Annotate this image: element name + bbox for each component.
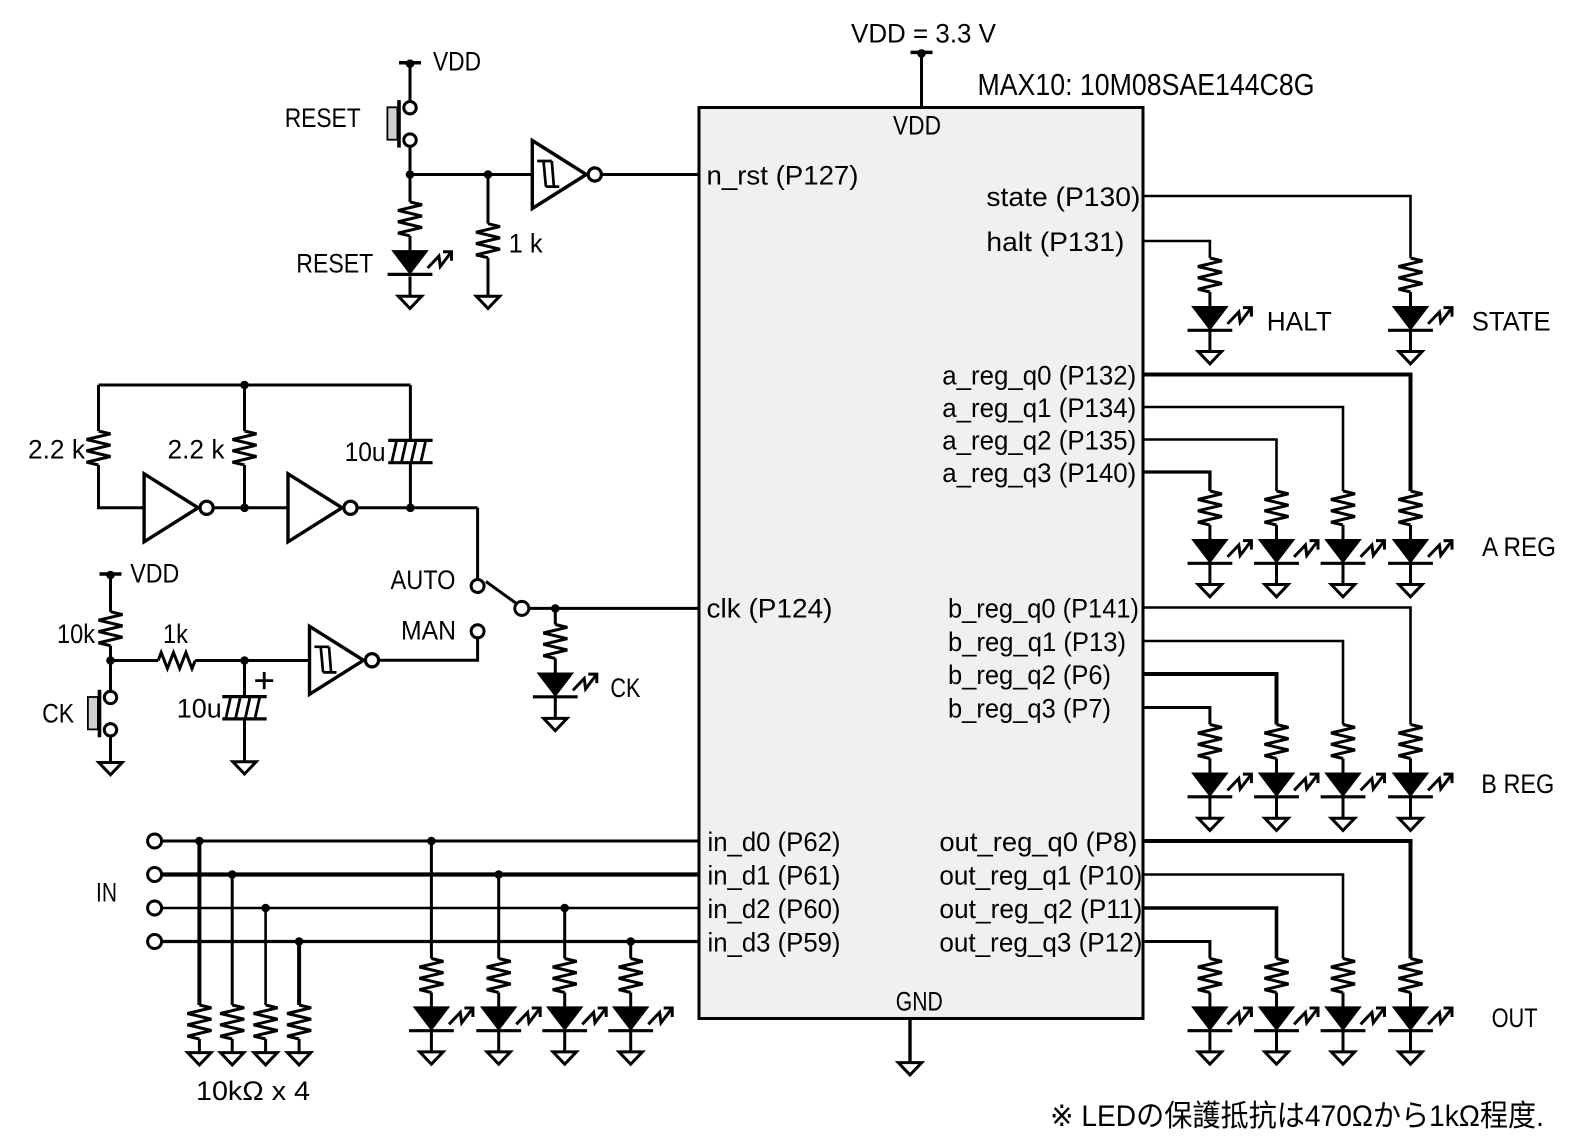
ground (D6) xyxy=(619,1052,642,1064)
wire D19 to ground xyxy=(1342,1032,1345,1052)
svg-text:VDD: VDD xyxy=(433,47,481,77)
VDD power symbol (CK pullup) xyxy=(100,571,122,580)
wire U2 output to FPGA n_rst xyxy=(602,173,699,176)
wire D10 to ground xyxy=(1275,564,1278,585)
resistor R10 10k xyxy=(254,1005,278,1039)
wire D16 to ground xyxy=(1409,798,1412,819)
wire R24 to LED D15 xyxy=(1342,759,1345,774)
wire R12 to LED D3 xyxy=(430,993,433,1008)
wire in_d1 to resistor R9 xyxy=(231,875,234,1006)
wire in_d3 to resistor R11 xyxy=(297,942,301,1006)
wire top to resistor R3 xyxy=(97,385,100,431)
svg-text:GND: GND xyxy=(896,987,943,1017)
resistor R12 (IN0 LED series) xyxy=(419,959,443,993)
wire a_reg_q3 (P140) to column 1 xyxy=(1143,472,1210,491)
pushbutton SW2 CK xyxy=(88,690,117,738)
wire node CKIN to resistor R6 xyxy=(111,659,159,662)
svg-text:a_reg_q3 (P140): a_reg_q3 (P140) xyxy=(942,458,1136,488)
wire SW1 to node RST xyxy=(409,147,412,175)
wire halt (P131) to HALT column xyxy=(1143,241,1210,258)
ground (D1) xyxy=(398,296,421,308)
switch SW3 AUTO contact xyxy=(471,580,484,593)
wire VDD to FPGA xyxy=(920,52,923,107)
svg-text:MAN: MAN xyxy=(401,616,456,646)
svg-text:AUTO: AUTO xyxy=(391,565,456,595)
wire D20 to ground xyxy=(1409,1032,1412,1052)
svg-text:A REG: A REG xyxy=(1482,532,1556,562)
oscillator top feedback wire xyxy=(99,384,411,387)
wire R19 to LED D10 xyxy=(1275,525,1278,540)
wire in_d1 xyxy=(162,872,699,876)
svg-text:a_reg_q0 (P132): a_reg_q0 (P132) xyxy=(942,361,1136,391)
wire R16 to LED D7 xyxy=(1208,292,1211,307)
resistor R29 (OUT q0) xyxy=(1399,959,1423,993)
wire R21 to LED D12 xyxy=(1409,525,1412,540)
schmitt inverter U2 xyxy=(532,141,601,209)
wire common to FPGA clk xyxy=(529,607,699,610)
svg-text:b_reg_q2 (P6): b_reg_q2 (P6) xyxy=(948,660,1111,690)
LED D1 RESET xyxy=(388,251,452,274)
wire node CKIN to pushbutton SW2 xyxy=(109,661,112,692)
wire D7 to ground xyxy=(1208,331,1211,352)
ground (SW2) xyxy=(99,763,122,775)
wire junction to resistor R7 xyxy=(554,608,557,624)
svg-text:b_reg_q0 (P141): b_reg_q0 (P141) xyxy=(948,594,1139,624)
resistor R9 10k xyxy=(220,1005,244,1039)
wire b_reg_q0 (P141) to column 4 xyxy=(1143,608,1411,725)
ground (D19) xyxy=(1331,1052,1354,1064)
junction in_d3 / R15 xyxy=(626,937,635,946)
wire R5 to node CKIN xyxy=(109,646,112,661)
wire R25 to LED D16 xyxy=(1409,759,1412,774)
ground (D7) xyxy=(1198,352,1221,364)
switch SW3 common contact xyxy=(515,601,529,615)
resistor R14 (IN2 LED series) xyxy=(553,959,577,993)
resistor R18 (A REG q3) xyxy=(1198,491,1222,525)
svg-text:in_d0 (P62): in_d0 (P62) xyxy=(708,827,841,857)
ground (D17) xyxy=(1198,1052,1221,1064)
svg-text:STATE: STATE xyxy=(1472,307,1551,337)
resistor R27 (OUT q2) xyxy=(1265,959,1289,993)
FPGA block U1 MAX10 xyxy=(699,108,1143,1019)
wire VDD to resistor R5 xyxy=(109,574,112,612)
resistor R23 (B REG q2) xyxy=(1265,725,1289,759)
wire in_d0 to resistor R8 xyxy=(197,841,201,1005)
svg-text:out_reg_q1 (P10): out_reg_q1 (P10) xyxy=(939,861,1142,891)
svg-text:in_d2 (P60): in_d2 (P60) xyxy=(708,894,841,924)
svg-text:out_reg_q2 (P11): out_reg_q2 (P11) xyxy=(939,894,1142,924)
resistor R21 (A REG q0) xyxy=(1399,491,1423,525)
wire R26 to LED D17 xyxy=(1208,993,1211,1008)
wire junction to resistor R4 xyxy=(243,385,246,431)
resistor R16 (HALT LED series) xyxy=(1198,258,1222,292)
terminal IN3 xyxy=(148,935,162,949)
wire R18 to LED D9 xyxy=(1208,525,1211,540)
resistor R7 (CK LED series) xyxy=(543,625,567,659)
resistor R11 10k xyxy=(287,1005,311,1039)
wire node RST to inverter U2 input xyxy=(410,173,532,176)
LED D6 IN3 xyxy=(608,1007,672,1030)
resistor R28 (OUT q1) xyxy=(1331,959,1355,993)
wire out_reg_q3 (P12) to column 1 xyxy=(1143,942,1210,959)
ground (D13) xyxy=(1198,818,1221,830)
svg-text:CK: CK xyxy=(42,699,74,729)
wire R6 to U5 input xyxy=(195,659,309,662)
wire VDD to switch SW1 xyxy=(409,63,412,102)
ground (D20) xyxy=(1399,1052,1422,1064)
svg-text:in_d3 (P59): in_d3 (P59) xyxy=(708,928,841,958)
wire D3 to ground xyxy=(430,1032,433,1052)
wire a_reg_q0 (P132) to column 4 xyxy=(1143,375,1411,492)
wire in_d2 to resistor R10 xyxy=(264,908,267,1005)
wire D11 to ground xyxy=(1342,564,1345,585)
terminal IN2 xyxy=(148,901,162,915)
LED D14 B REG q2 xyxy=(1254,774,1318,797)
wire R2 to ground xyxy=(487,258,490,297)
wire R28 to LED D19 xyxy=(1342,993,1345,1008)
wire C2 to ground xyxy=(243,719,246,762)
schmitt inverter U5 xyxy=(310,626,379,694)
wire R9 to ground xyxy=(231,1039,234,1053)
wire U3 output to U4 input xyxy=(213,506,288,509)
junction in_d0 / R8 xyxy=(195,837,204,846)
node CKIN junction xyxy=(106,656,115,665)
wire D18 to ground xyxy=(1275,1032,1278,1052)
wire out_reg_q2 (P11) to column 2 xyxy=(1143,908,1277,959)
ground (D12) xyxy=(1399,585,1422,597)
wire R8 to ground xyxy=(198,1039,201,1053)
svg-text:2.2 k: 2.2 k xyxy=(168,435,225,465)
LED D9 A REG q3 xyxy=(1188,540,1252,563)
resistor R25 (B REG q0) xyxy=(1399,725,1423,759)
ground (C2) xyxy=(233,762,256,774)
svg-text:halt (P131): halt (P131) xyxy=(986,227,1124,257)
resistor R24 (B REG q1) xyxy=(1331,725,1355,759)
LED D19 OUT q1 xyxy=(1321,1007,1385,1030)
wire node RST to resistor R2 xyxy=(487,175,490,224)
ground (R9) xyxy=(221,1053,244,1065)
svg-text:b_reg_q1 (P13): b_reg_q1 (P13) xyxy=(948,627,1126,657)
wire GND below FPGA xyxy=(908,1019,911,1063)
resistor R5 10k xyxy=(99,612,123,646)
VDD power symbol (RESET pullup) xyxy=(399,59,421,68)
LED D7 HALT xyxy=(1188,307,1252,330)
wire R13 to LED D4 xyxy=(497,993,500,1008)
resistor R4 2.2k xyxy=(233,431,257,465)
wire R23 to LED D14 xyxy=(1275,759,1278,774)
svg-text:VDD: VDD xyxy=(130,559,179,589)
wire D4 to ground xyxy=(497,1032,500,1052)
ground (D9) xyxy=(1198,585,1221,597)
wire R14 to LED D5 xyxy=(563,993,566,1008)
wire in_d0 to resistor R12 xyxy=(430,841,433,959)
wire D12 to ground xyxy=(1409,564,1412,585)
svg-text:in_d1 (P61): in_d1 (P61) xyxy=(708,861,841,891)
wire b_reg_q1 (P13) to column 3 xyxy=(1143,641,1343,725)
LED D16 B REG q0 xyxy=(1388,774,1452,797)
junction in_d1 / R13 xyxy=(494,870,503,879)
junction in_d0 / R12 xyxy=(427,837,436,846)
wire b_reg_q3 (P7) to column 1 xyxy=(1143,708,1210,725)
wire in_d3 to resistor R15 xyxy=(629,942,632,959)
junction U3 out / R4 xyxy=(240,504,249,513)
svg-text:10kΩ x 4: 10kΩ x 4 xyxy=(196,1076,310,1106)
wire D13 to ground xyxy=(1208,798,1211,819)
wire SW2 to ground xyxy=(109,736,112,763)
ground (D5) xyxy=(553,1052,576,1064)
wire D17 to ground xyxy=(1208,1032,1211,1052)
svg-text:CK: CK xyxy=(610,673,640,703)
svg-text:VDD: VDD xyxy=(893,111,941,141)
LED D13 B REG q3 xyxy=(1188,774,1252,797)
ground (R10) xyxy=(254,1053,277,1065)
wire to AUTO contact xyxy=(476,508,479,580)
terminal IN0 xyxy=(148,834,162,848)
svg-text:RESET: RESET xyxy=(285,103,361,133)
svg-text:out_reg_q3 (P12): out_reg_q3 (P12) xyxy=(939,928,1142,958)
resistor R17 (STATE LED series) xyxy=(1399,258,1423,292)
LED D10 A REG q2 xyxy=(1254,540,1318,563)
wire junction to capacitor C2 xyxy=(243,661,246,697)
svg-text:※ LEDの保護抵抗は470Ωから1kΩ程度.: ※ LEDの保護抵抗は470Ωから1kΩ程度. xyxy=(1050,1100,1544,1133)
LED D11 A REG q1 xyxy=(1321,540,1385,563)
wire R7 to LED D2 xyxy=(554,659,557,674)
wire R3 to U3 input xyxy=(99,465,145,508)
junction CK LED xyxy=(551,604,560,613)
LED D15 B REG q1 xyxy=(1321,774,1385,797)
svg-text:2.2 k: 2.2 k xyxy=(28,435,85,465)
svg-text:a_reg_q1 (P134): a_reg_q1 (P134) xyxy=(942,393,1136,423)
wire D15 to ground xyxy=(1342,798,1345,819)
svg-text:MAX10: 10M08SAE144C8G: MAX10: 10M08SAE144C8G xyxy=(978,67,1315,102)
wire out_reg_q0 (P8) to column 4 xyxy=(1143,841,1411,959)
svg-text:VDD = 3.3 V: VDD = 3.3 V xyxy=(851,19,996,49)
resistor R1 (RESET LED series) xyxy=(398,202,422,236)
svg-text:10u: 10u xyxy=(345,437,386,467)
resistor R3 2.2k xyxy=(87,431,111,465)
svg-text:out_reg_q0 (P8): out_reg_q0 (P8) xyxy=(939,827,1137,857)
node RST junction xyxy=(406,170,415,179)
switch SW3 lever xyxy=(486,582,516,604)
ground (D10) xyxy=(1265,585,1288,597)
wire D2 to ground xyxy=(554,698,557,719)
wire R15 to LED D6 xyxy=(629,993,632,1008)
wire U4 output to switch xyxy=(357,506,478,509)
wire R27 to LED D18 xyxy=(1275,993,1278,1008)
capacitor C1 10u xyxy=(388,440,432,462)
ground (R2) xyxy=(476,296,499,308)
wire R22 to LED D13 xyxy=(1208,759,1211,774)
svg-text:IN: IN xyxy=(96,878,117,908)
svg-text:RESET: RESET xyxy=(296,249,373,279)
junction feedback / R4 xyxy=(240,381,249,390)
plus sign (C2 polarity) xyxy=(255,672,273,689)
junction at R2 top xyxy=(484,170,493,179)
wire node RST to resistor R1 xyxy=(409,175,412,202)
switch SW3 MAN contact xyxy=(471,625,484,638)
svg-text:b_reg_q3 (P7): b_reg_q3 (P7) xyxy=(948,694,1111,724)
wire R1 to LED D1 xyxy=(409,236,412,251)
wire D14 to ground xyxy=(1275,798,1278,819)
wire U5 output to MAN contact xyxy=(379,638,478,661)
LED D3 IN0 xyxy=(409,1007,473,1030)
wire R17 to LED D8 xyxy=(1409,292,1412,307)
svg-text:10u: 10u xyxy=(177,694,222,724)
junction in_d1 / R9 xyxy=(228,870,237,879)
svg-text:clk (P124): clk (P124) xyxy=(707,594,833,624)
svg-text:OUT: OUT xyxy=(1492,1003,1538,1033)
wire a_reg_q2 (P135) to column 2 xyxy=(1143,440,1277,492)
wire in_d2 to resistor R14 xyxy=(563,908,566,959)
wire R10 to ground xyxy=(264,1039,267,1053)
terminal IN1 xyxy=(148,868,162,882)
ground (D11) xyxy=(1331,585,1354,597)
wire D9 to ground xyxy=(1208,564,1211,585)
wire out_reg_q1 (P10) to column 3 xyxy=(1143,875,1343,959)
ground (R11) xyxy=(287,1053,310,1065)
svg-text:HALT: HALT xyxy=(1267,307,1332,337)
wire D1 to ground xyxy=(409,276,412,296)
svg-text:1 k: 1 k xyxy=(509,229,543,259)
svg-text:state (P130): state (P130) xyxy=(986,182,1140,212)
svg-text:a_reg_q2 (P135): a_reg_q2 (P135) xyxy=(942,426,1136,456)
ground (D18) xyxy=(1265,1052,1288,1064)
capacitor C2 10u (polarized) xyxy=(222,697,266,719)
resistor R19 (A REG q2) xyxy=(1265,491,1289,525)
VDD power symbol (top of FPGA) xyxy=(911,49,933,58)
ground (D16) xyxy=(1399,818,1422,830)
resistor R22 (B REG q3) xyxy=(1198,725,1222,759)
resistor R15 (IN3 LED series) xyxy=(619,959,643,993)
junction in_d2 / R10 xyxy=(261,904,270,913)
ground (D14) xyxy=(1265,818,1288,830)
resistor R2 1k pulldown xyxy=(476,224,500,258)
inverter U4 xyxy=(288,474,357,542)
wire in_d3 xyxy=(162,940,699,943)
inverter U3 xyxy=(144,474,213,542)
wire R11 to ground xyxy=(298,1039,301,1053)
wire a_reg_q1 (P134) to column 3 xyxy=(1143,407,1343,491)
svg-text:1k: 1k xyxy=(163,619,188,649)
svg-text:10k: 10k xyxy=(57,619,95,649)
LED D8 STATE xyxy=(1388,307,1452,330)
wire D8 to ground xyxy=(1409,331,1412,352)
wire in_d0 xyxy=(162,840,699,843)
pushbutton SW1 RESET xyxy=(387,100,416,148)
ground (D15) xyxy=(1331,818,1354,830)
junction U4 out / C1 xyxy=(406,504,415,513)
LED D17 OUT q3 xyxy=(1188,1007,1252,1030)
resistor R13 (IN1 LED series) xyxy=(487,959,511,993)
LED D4 IN1 xyxy=(476,1007,540,1030)
wire D5 to ground xyxy=(563,1032,566,1052)
ground (FPGA GND) xyxy=(898,1063,921,1075)
LED D20 OUT q0 xyxy=(1388,1007,1452,1030)
junction C2 top xyxy=(240,656,249,665)
ground (D4) xyxy=(487,1052,510,1064)
wire in_d2 xyxy=(162,907,699,910)
wire top to capacitor C1 xyxy=(409,385,412,440)
LED D2 CK xyxy=(533,674,597,697)
wire R29 to LED D20 xyxy=(1409,993,1412,1008)
wire D6 to ground xyxy=(629,1032,632,1052)
LED D12 A REG q0 xyxy=(1388,540,1452,563)
ground (D3) xyxy=(420,1052,443,1064)
resistor R26 (OUT q3) xyxy=(1198,959,1222,993)
wire C1 to junction xyxy=(409,463,412,508)
wire R20 to LED D11 xyxy=(1342,525,1345,540)
wire R4 bottom to junction xyxy=(243,465,246,508)
svg-text:B REG: B REG xyxy=(1481,769,1554,799)
resistor R20 (A REG q1) xyxy=(1331,491,1355,525)
LED D5 IN2 xyxy=(542,1007,606,1030)
junction in_d2 / R14 xyxy=(560,904,569,913)
ground (D2) xyxy=(544,718,567,730)
junction in_d3 / R11 xyxy=(295,937,304,946)
wire state (P130) to STATE column xyxy=(1143,196,1411,258)
wire b_reg_q2 (P6) to column 2 xyxy=(1143,674,1277,725)
ground (D8) xyxy=(1399,352,1422,364)
wire in_d1 to resistor R13 xyxy=(497,875,500,959)
resistor R8 10k xyxy=(187,1005,211,1039)
LED D18 OUT q2 xyxy=(1254,1007,1318,1030)
ground (R8) xyxy=(188,1053,211,1065)
svg-text:n_rst (P127): n_rst (P127) xyxy=(707,161,859,191)
resistor R6 1k (horizontal) xyxy=(158,653,195,669)
